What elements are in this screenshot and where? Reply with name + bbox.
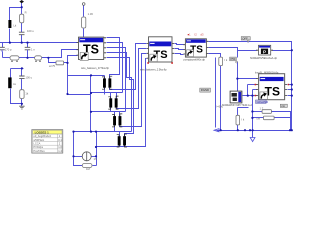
svg-text:LCCA: LCCA xyxy=(33,142,40,146)
svg-text:P50: P50 xyxy=(231,57,236,61)
svg-text:l k: l k xyxy=(242,118,245,122)
svg-text:■1: ■1 xyxy=(188,33,192,37)
svg-text:1k: 1k xyxy=(25,92,28,96)
svg-text:0.1: 0.1 xyxy=(58,138,62,142)
svg-text:l k: l k xyxy=(225,58,228,62)
svg-text:R: R xyxy=(25,11,27,15)
svg-text:1.7: 1.7 xyxy=(260,107,264,111)
svg-text:wire_bakoven_07.5kw.flp: wire_bakoven_07.5kw.flp xyxy=(81,67,110,70)
svg-text:RGND: RGND xyxy=(201,88,209,92)
svg-text:cm: cm xyxy=(281,104,285,108)
svg-text:Lk: Lk xyxy=(13,82,16,86)
svg-text:u0_AvgWindvA: u0_AvgWindvA xyxy=(33,134,51,138)
svg-text:1N: 1N xyxy=(94,157,97,161)
svg-text:SCREW3V5EU2AuA-dp: SCREW3V5EU2AuA-dp xyxy=(250,57,278,60)
svg-text:LOSSES 1: LOSSES 1 xyxy=(35,130,50,134)
svg-text:PosT/Rev: PosT/Rev xyxy=(33,149,45,153)
svg-text:100 u: 100 u xyxy=(25,76,32,80)
svg-text:l 2: l 2 xyxy=(194,33,197,37)
svg-text:P: P xyxy=(263,49,266,54)
svg-text:wire_bakoven_2.5kw.flp: wire_bakoven_2.5kw.flp xyxy=(140,68,167,71)
svg-text:PVIGfps: PVIGfps xyxy=(33,145,43,149)
svg-text:1.4: 1.4 xyxy=(58,149,62,153)
svg-text:pumpjaymkW0e.dp: pumpjaymkW0e.dp xyxy=(184,59,206,62)
svg-text:1.0: 1.0 xyxy=(58,145,62,149)
svg-text:InsuSL_M09001A-flp: InsuSL_M09001A-flp xyxy=(255,71,279,74)
svg-text:d3: d3 xyxy=(201,33,204,37)
svg-text:1.36: 1.36 xyxy=(88,12,94,16)
svg-text:GRuAND: GRuAND xyxy=(257,100,269,104)
svg-text:a=75: a=75 xyxy=(49,64,56,68)
svg-text:1 n: 1 n xyxy=(31,48,35,52)
svg-text:170 p: 170 p xyxy=(5,48,12,52)
svg-text:100 u: 100 u xyxy=(27,29,34,33)
svg-text:Lk: Lk xyxy=(13,24,16,28)
svg-text:w50Plant: w50Plant xyxy=(33,138,44,142)
svg-text:SCREW03Y-MP7.5kW-A-d: SCREW03Y-MP7.5kW-A-d xyxy=(222,104,252,107)
svg-text:OFF: OFF xyxy=(242,36,248,40)
